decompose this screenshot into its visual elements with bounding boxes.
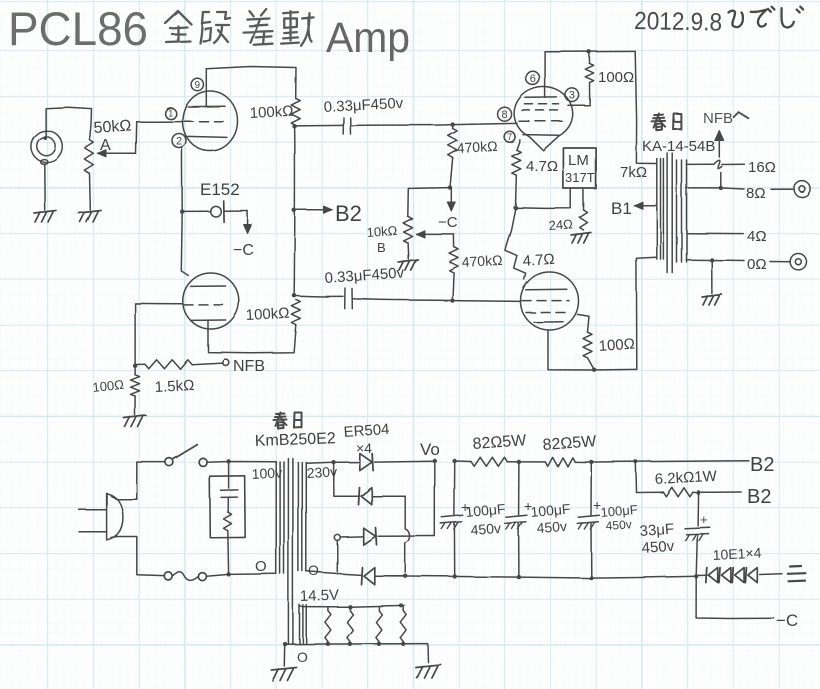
- svg-text:2: 2: [176, 136, 182, 148]
- svg-text:B: B: [377, 240, 386, 255]
- svg-text:1: 1: [168, 109, 173, 119]
- svg-text:−C: −C: [438, 214, 458, 231]
- svg-text:9: 9: [195, 80, 201, 91]
- svg-text:B2: B2: [747, 486, 771, 508]
- svg-text:KA-14-54B: KA-14-54B: [642, 138, 715, 155]
- svg-text:100Ω: 100Ω: [598, 69, 634, 86]
- svg-text:8Ω: 8Ω: [746, 185, 766, 202]
- svg-text:450v: 450v: [470, 520, 501, 538]
- svg-text:B2: B2: [750, 454, 774, 476]
- svg-text:−C: −C: [776, 611, 798, 630]
- svg-text:×4: ×4: [356, 440, 372, 456]
- svg-text:2012.9.8: 2012.9.8: [634, 7, 722, 37]
- svg-text:+: +: [700, 512, 708, 527]
- svg-text:NFB: NFB: [703, 110, 733, 127]
- svg-text:8: 8: [502, 109, 508, 121]
- svg-text:LM: LM: [568, 152, 589, 169]
- svg-text:4Ω: 4Ω: [747, 228, 767, 245]
- svg-text:50kΩ: 50kΩ: [93, 117, 132, 137]
- svg-text:82Ω5W: 82Ω5W: [542, 433, 598, 454]
- svg-text:ER504: ER504: [343, 421, 390, 441]
- svg-text:450v: 450v: [605, 517, 632, 533]
- svg-text:B2: B2: [335, 201, 362, 226]
- svg-text:14.5V: 14.5V: [300, 587, 340, 605]
- svg-text:4.7Ω: 4.7Ω: [526, 158, 558, 175]
- svg-text:Amp: Amp: [326, 14, 410, 62]
- svg-text:100kΩ: 100kΩ: [249, 103, 294, 122]
- svg-text:B1: B1: [611, 199, 632, 218]
- svg-text:0.33μF450v: 0.33μF450v: [323, 95, 404, 116]
- svg-text:10kΩ: 10kΩ: [366, 223, 398, 240]
- svg-text:450v: 450v: [641, 538, 675, 557]
- svg-text:6: 6: [530, 73, 536, 85]
- svg-text:Vo: Vo: [420, 440, 440, 459]
- svg-text:16Ω: 16Ω: [748, 159, 776, 176]
- svg-text:O: O: [308, 562, 319, 578]
- svg-text:1.5kΩ: 1.5kΩ: [154, 377, 194, 396]
- svg-text:E152: E152: [200, 180, 240, 199]
- svg-text:KmB250E2: KmB250E2: [255, 430, 337, 450]
- svg-text:470kΩ: 470kΩ: [461, 252, 503, 270]
- svg-text:O: O: [297, 649, 308, 665]
- svg-text:470kΩ: 470kΩ: [456, 138, 498, 156]
- svg-text:24Ω: 24Ω: [548, 216, 573, 233]
- svg-text:0Ω: 0Ω: [747, 256, 767, 273]
- svg-text:6.2kΩ1W: 6.2kΩ1W: [654, 468, 718, 488]
- svg-text:82Ω5W: 82Ω5W: [472, 432, 528, 453]
- svg-text:10E1×4: 10E1×4: [712, 544, 762, 563]
- svg-text:100Ω: 100Ω: [598, 336, 635, 355]
- svg-text:3: 3: [569, 90, 575, 102]
- svg-text:7: 7: [507, 132, 512, 142]
- svg-text:O: O: [255, 558, 267, 575]
- svg-text:450v: 450v: [536, 518, 567, 536]
- svg-text:4.7Ω: 4.7Ω: [522, 251, 555, 270]
- svg-text:100kΩ: 100kΩ: [245, 305, 290, 324]
- svg-text:100μF: 100μF: [465, 501, 506, 520]
- svg-text:7kΩ: 7kΩ: [620, 164, 647, 181]
- svg-text:230v: 230v: [306, 463, 337, 481]
- svg-text:100Ω: 100Ω: [92, 377, 125, 395]
- svg-text:0.33μF450v: 0.33μF450v: [324, 264, 405, 287]
- svg-text:100v: 100v: [251, 464, 282, 482]
- svg-text:317T: 317T: [565, 170, 595, 185]
- svg-text:NFB: NFB: [233, 358, 265, 375]
- svg-text:A: A: [100, 137, 111, 154]
- svg-text:−C: −C: [233, 242, 254, 259]
- svg-text:PCL86: PCL86: [8, 2, 148, 55]
